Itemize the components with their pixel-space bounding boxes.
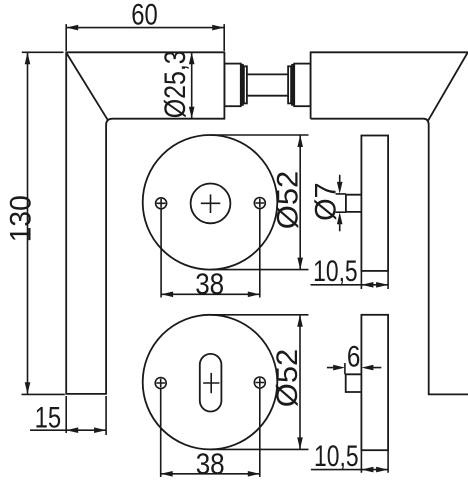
rosette 1 dimension 38 extension lines: [161, 209, 260, 298]
rosette 1 Ø52 dimension line: [299, 135, 301, 270]
svg-text:Ø52: Ø52: [271, 171, 304, 230]
dimension 130 line: [27, 52, 29, 394]
svg-text:130: 130: [5, 195, 38, 242]
svg-text:60: 60: [131, 0, 158, 31]
side view 2 plate: [361, 315, 388, 450]
dimension 15 line: [30, 429, 106, 431]
rosette 2 Ø52 dimension line: [299, 315, 301, 450]
svg-text:Ø25,3: Ø25,3: [159, 50, 192, 118]
side view 1 dimension 10,5 leader line with arrows: [311, 284, 389, 286]
rosette 2 keyhole slot: [200, 354, 222, 412]
dimension 6 extension line: [344, 363, 346, 374]
svg-text:38: 38: [196, 448, 225, 480]
rosette 2 dimension 38 line: [161, 473, 260, 475]
spindle left collar: [224, 64, 240, 107]
rosette 2 left screw: [155, 378, 166, 389]
dimension 60 line: [66, 27, 224, 29]
svg-text:Ø52: Ø52: [271, 349, 304, 408]
dimension Ø7 extension lines: [336, 194, 346, 212]
spindle right collar: [294, 64, 310, 107]
svg-text:Ø7: Ø7: [309, 182, 342, 221]
side view 2 square tab: [346, 374, 362, 392]
rosette 2 Ø52 extension lines: [210, 315, 309, 450]
rosette 1 left screw: [156, 198, 167, 209]
rosette 1 circle: [143, 135, 278, 270]
dimension 15 extension lines: [66, 396, 106, 435]
side view 1 spindle pin: [346, 195, 362, 212]
rosette 2 circle: [143, 315, 278, 450]
svg-text:38: 38: [195, 268, 224, 301]
dimension 6 arrows: [327, 367, 381, 369]
spindle shaft: [247, 74, 288, 95]
svg-text:6: 6: [347, 340, 361, 373]
side view 2 dimension 10,5 leader line with arrows: [311, 469, 389, 471]
dimension 130 extension lines: [22, 52, 65, 394]
dimension Ø25,3 line: [191, 52, 193, 118]
rosette 2 right screw: [254, 377, 265, 388]
svg-text:10,5: 10,5: [314, 440, 359, 473]
rosette 1 hub cross: [201, 194, 221, 213]
dimension Ø7 arrows: [339, 175, 341, 231]
svg-text:10,5: 10,5: [313, 255, 358, 288]
rosette 1 dimension 38 line: [161, 293, 260, 295]
left handle neck diagonal: [66, 53, 108, 121]
rosette 1 hub circle: [191, 184, 231, 224]
rosette 1 right screw: [254, 198, 265, 209]
side view 2 dimension 10,5 extension lines: [361, 451, 388, 473]
right handle neck diagonal: [428, 53, 467, 121]
dimension 60 extension lines: [66, 24, 224, 51]
spindle left flange: [241, 65, 243, 105]
right handle outline: [311, 52, 468, 118]
rosette 2 cross: [203, 373, 219, 393]
side view 1 dimension 10,5 extension lines: [361, 271, 388, 289]
rosette 2 dimension 38 extension lines: [161, 388, 260, 477]
spindle right flange: [288, 66, 291, 103]
rosette 1 Ø52 extension lines: [210, 135, 309, 270]
left handle outline: [66, 52, 224, 394]
side view 1 plate: [361, 136, 388, 271]
